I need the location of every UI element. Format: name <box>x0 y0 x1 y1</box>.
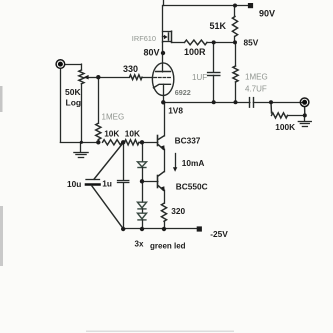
svg-text:1MEG: 1MEG <box>245 73 268 82</box>
svg-text:4.7UF: 4.7UF <box>245 85 267 94</box>
svg-text:50K: 50K <box>65 87 81 97</box>
svg-text:-25V: -25V <box>210 229 228 239</box>
svg-text:BC550C: BC550C <box>176 181 208 191</box>
svg-text:3x: 3x <box>135 240 144 249</box>
svg-text:green led: green led <box>150 242 186 251</box>
svg-text:90V: 90V <box>259 9 275 19</box>
svg-text:BC337: BC337 <box>175 136 201 146</box>
svg-text:1u: 1u <box>102 178 112 188</box>
svg-text:10u: 10u <box>67 179 81 189</box>
svg-text:330: 330 <box>123 64 138 74</box>
svg-text:6922: 6922 <box>175 88 191 97</box>
svg-text:51K: 51K <box>210 21 227 31</box>
svg-text:IRF610: IRF610 <box>132 34 156 43</box>
svg-text:100R: 100R <box>184 47 206 57</box>
svg-text:10K: 10K <box>125 128 140 138</box>
svg-text:10K: 10K <box>104 128 119 138</box>
svg-text:320: 320 <box>171 206 185 216</box>
svg-text:1MEG: 1MEG <box>102 113 125 122</box>
svg-text:1V8: 1V8 <box>168 106 183 116</box>
svg-text:1UF: 1UF <box>192 73 207 82</box>
svg-text:Log: Log <box>66 98 82 108</box>
svg-text:10mA: 10mA <box>182 158 205 168</box>
svg-text:100K: 100K <box>275 122 295 132</box>
svg-text:80V: 80V <box>144 48 160 58</box>
svg-text:85V: 85V <box>244 38 259 48</box>
